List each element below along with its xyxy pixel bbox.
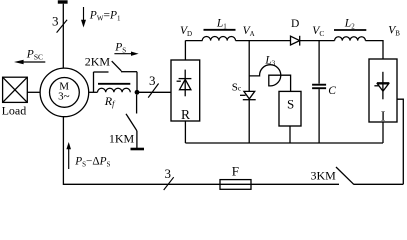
three-phase slash on supply drop bbox=[57, 20, 68, 33]
motor M 3~ bbox=[40, 68, 89, 117]
diode D bbox=[291, 36, 300, 46]
chopper S box bbox=[279, 91, 301, 126]
svg-text:Rf: Rf bbox=[104, 94, 116, 109]
fuse F bbox=[220, 180, 251, 190]
wire: supply drop to motor bbox=[62, 4, 64, 69]
wire: motor bottom to slip-power feedback rail bbox=[63, 117, 339, 185]
svg-text:VC: VC bbox=[312, 25, 324, 38]
wire: S box bottom riser bbox=[289, 126, 291, 143]
svg-text:PS−ΔPS: PS−ΔPS bbox=[74, 155, 110, 168]
svg-text:VA: VA bbox=[243, 25, 255, 38]
svg-text:PW=P1: PW=P1 bbox=[89, 9, 121, 22]
inverter I box bbox=[369, 59, 397, 125]
svg-text:Load: Load bbox=[2, 104, 27, 118]
svg-text:L3: L3 bbox=[264, 54, 275, 67]
three-phase slash on feedback rail bbox=[164, 177, 174, 190]
wire: junction to rectifier bbox=[137, 91, 171, 93]
svg-text:R: R bbox=[181, 107, 190, 122]
three-phase slash on rotor wire bbox=[148, 84, 158, 98]
arrow Psc (power to load, left) bbox=[14, 60, 45, 65]
arrow Pw (power flow down) bbox=[81, 7, 86, 28]
wire: L2 to inverter top bbox=[365, 41, 383, 59]
wire: I box bottom riser bbox=[382, 122, 384, 143]
svg-text:F: F bbox=[232, 164, 239, 179]
wire: L1 to diode D bbox=[236, 40, 291, 42]
wire: VA riser down bbox=[248, 41, 250, 92]
wire: load to motor bbox=[27, 91, 40, 93]
svg-text:PSC: PSC bbox=[26, 48, 43, 61]
svg-text:PS: PS bbox=[114, 41, 126, 54]
svg-text:VD: VD bbox=[180, 25, 192, 38]
wire: top DC rail VD to L1 bbox=[185, 40, 202, 42]
wire: diode to L2 bbox=[300, 40, 335, 42]
inductor L2 (filter reactor with core) bbox=[334, 30, 366, 41]
svg-text:3: 3 bbox=[52, 14, 59, 29]
junction node (rotor star point) bbox=[135, 90, 140, 95]
contact 3KM (inverter to supply) bbox=[336, 167, 403, 184]
svg-text:3: 3 bbox=[165, 166, 172, 181]
thyristor Sc bbox=[240, 91, 256, 143]
supply bus bar bbox=[58, 0, 68, 3]
inductor L3 (loop to chopper S) bbox=[249, 65, 290, 92]
wire: R box bottom riser bbox=[184, 121, 186, 143]
wire: VC riser to capacitor bbox=[318, 41, 320, 84]
svg-text:3KM: 3KM bbox=[311, 168, 337, 182]
wire: motor rotor to Rf network bbox=[89, 91, 98, 93]
capacitor C bbox=[312, 85, 326, 143]
resistor Rf (frequency-sensitive rheostat: coil with core bar) bbox=[98, 84, 131, 93]
svg-text:3~: 3~ bbox=[58, 91, 70, 103]
svg-text:3: 3 bbox=[149, 73, 156, 88]
svg-text:VB: VB bbox=[388, 25, 400, 38]
svg-text:Sc: Sc bbox=[232, 81, 242, 93]
contact 1KM (starting resistor cut) bbox=[126, 95, 144, 149]
svg-text:2KM: 2KM bbox=[85, 55, 111, 69]
svg-text:L2: L2 bbox=[344, 18, 355, 31]
contact 2KM (bypass) bbox=[94, 61, 138, 92]
svg-text:C: C bbox=[328, 85, 336, 97]
load (machine) box with X bbox=[3, 77, 28, 102]
wire: bottom DC rail bbox=[185, 142, 383, 144]
arrow Ps (slip power right) bbox=[114, 52, 138, 56]
wire: R box top riser bbox=[184, 41, 186, 61]
svg-text:1KM: 1KM bbox=[109, 131, 135, 145]
svg-text:S: S bbox=[287, 97, 294, 112]
arrow Ps-dPs (slip power up) bbox=[66, 142, 71, 169]
inductor L1 (smoothing reactor with core) bbox=[202, 30, 235, 41]
svg-text:D: D bbox=[291, 18, 299, 30]
svg-text:L1: L1 bbox=[216, 17, 227, 30]
wire: right riser (3KM up to inverter) bbox=[397, 99, 403, 184]
rectifier R box bbox=[171, 60, 200, 122]
